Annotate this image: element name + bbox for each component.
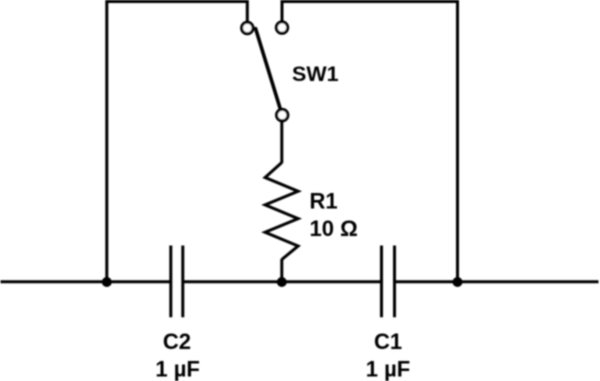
- switch SW1 blade (open, from left throw to pole): [256, 29, 281, 109]
- switch SW1 right throw terminal circle: [276, 22, 287, 33]
- capacitor C1 left plate: [380, 246, 383, 318]
- junction dot: right vertical meets bottom rail: [453, 277, 463, 287]
- wire: bottom rail left segment (left edge to C2 left plate): [1, 280, 171, 283]
- resistor R1 zigzag body: [265, 163, 298, 260]
- capacitor C2 left plate: [169, 246, 172, 318]
- svg-text:C1: C1: [374, 329, 402, 354]
- svg-text:C2: C2: [163, 329, 191, 354]
- capacitor C1 right plate: [393, 246, 396, 318]
- svg-text:1 µF: 1 µF: [366, 357, 410, 381]
- wire: SW1 right throw stub + top-right wire + right vertical: [282, 2, 458, 283]
- svg-text:1 µF: 1 µF: [155, 357, 199, 381]
- switch SW1 pole circle: [277, 109, 288, 120]
- junction dot: resistor meets bottom rail: [277, 277, 287, 287]
- svg-text:10 Ω: 10 Ω: [310, 216, 358, 241]
- junction dot: left vertical meets bottom rail: [102, 277, 112, 287]
- wire: bottom rail middle segment (C2 right plate to C1 left plate): [183, 280, 382, 283]
- wire: SW1 pole down to resistor R1: [280, 122, 283, 164]
- wire: bottom rail right segment (C1 right plate to right edge): [395, 280, 599, 283]
- svg-text:R1: R1: [310, 188, 338, 213]
- svg-text:SW1: SW1: [292, 62, 339, 86]
- switch SW1 left throw terminal circle: [242, 22, 253, 33]
- wire: top-left loop (left vertical + top wire to SW1 left throw): [107, 2, 248, 283]
- capacitor C2 right plate: [181, 246, 184, 318]
- wire: resistor R1 bottom to bottom rail: [280, 259, 283, 282]
